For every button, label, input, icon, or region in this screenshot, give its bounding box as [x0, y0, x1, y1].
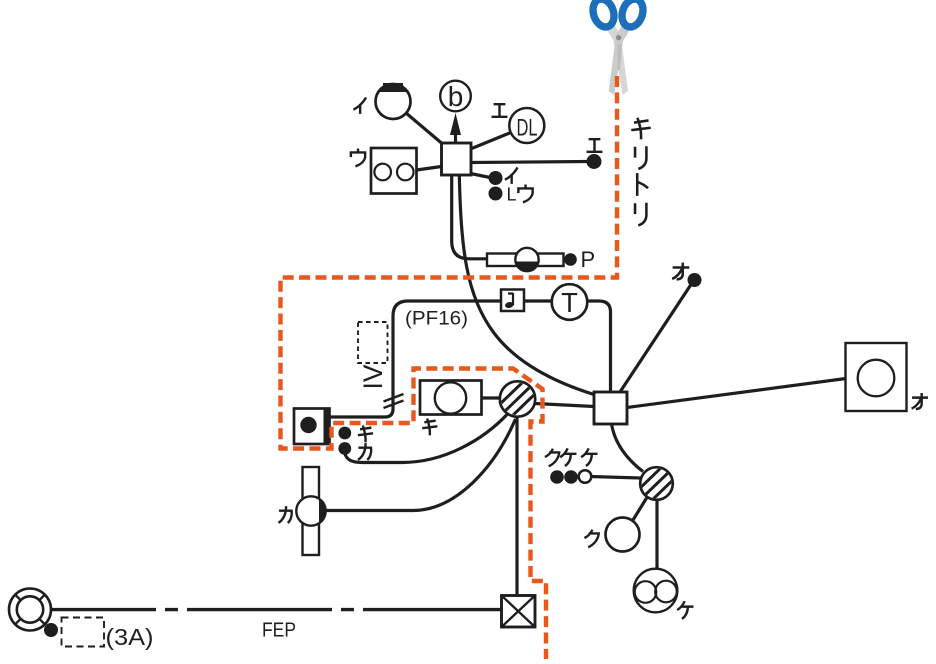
label U for outlet	[351, 148, 365, 166]
wire: long curve switchbox to junction box	[459, 175, 594, 395]
svg-text:FEP: FEP	[262, 620, 296, 642]
switch dot KA	[338, 442, 351, 455]
outlet KE (two circles in circle)	[634, 569, 678, 613]
wall light KA (bar + circle, black half)	[303, 467, 320, 555]
svg-text:DL: DL	[517, 115, 538, 142]
wire: switch dots KU/KE to joint circle 2	[591, 477, 641, 479]
wire: switchbox to switches I/L-U	[468, 173, 490, 178]
wire: switches KI/KA curve to joint circle 1	[345, 414, 508, 463]
wire: junction box to ceiling O dot	[620, 283, 692, 392]
svg-text:L: L	[507, 185, 517, 205]
label kiritori RI2	[635, 203, 646, 226]
pilot b circle	[440, 81, 471, 112]
wire: joint circle 1 down to pull box	[515, 417, 518, 596]
switch with pilot KI (circle in rect)	[420, 381, 482, 415]
dashed 3A callout box	[62, 618, 105, 647]
wire: junction box down to joint circle 2	[612, 424, 644, 472]
wire: switchbox to lamp	[406, 113, 445, 146]
svg-text:IV: IV	[358, 365, 388, 390]
wire: junction box to box light O	[627, 379, 846, 408]
label KA for switch	[358, 443, 371, 460]
label KE2	[581, 448, 597, 466]
svg-text:b: b	[448, 81, 464, 112]
label KU	[545, 449, 559, 467]
switch dot KU	[550, 470, 564, 484]
joint circle 1 (hatched)	[497, 379, 538, 419]
label I for lamp	[353, 98, 366, 114]
wire: switch rect KI to joint circle 1	[482, 396, 500, 399]
label KE1	[560, 448, 576, 466]
wire: outlet to chime via PF16 conduit	[330, 301, 501, 417]
cut line (kiritori) orange dashed path	[281, 76, 618, 659]
svg-text:P: P	[581, 247, 596, 272]
label O for dot	[672, 263, 689, 280]
IV wire-type dashed callout box	[358, 322, 388, 363]
wire: chime to transformer	[524, 299, 552, 302]
switch dot KE open	[579, 470, 592, 483]
switchbox (top square)	[442, 143, 472, 175]
wire: switchbox right to switch E	[471, 162, 589, 163]
label O for box light	[912, 393, 928, 409]
switch dot E (end of right wire)	[587, 154, 602, 169]
black dot at service entrance	[44, 623, 58, 637]
label E for downlight	[492, 104, 508, 117]
label kiritori KI	[631, 118, 650, 140]
wire: switchbox to downlight	[468, 132, 512, 150]
junction box (middle square)	[594, 392, 627, 424]
wire: switchbox down to P pull switch	[452, 175, 487, 259]
label U for switch L	[518, 184, 532, 202]
switch dot KE filled	[564, 470, 578, 484]
label KU for lamp	[584, 530, 598, 548]
wire: wall light KA curve to joint circle 1	[326, 419, 516, 511]
wire count slashes	[384, 394, 404, 408]
wire: transformer to junction box	[588, 301, 611, 392]
label kiritori RI	[635, 146, 646, 169]
label kiritori TO	[637, 173, 648, 196]
pull box (square with X)	[502, 596, 536, 628]
wire: joint circle 1 to junction box	[535, 404, 594, 407]
label KI for switch rect	[422, 419, 437, 436]
label KI for switch	[358, 426, 373, 443]
switch dot I	[489, 171, 503, 185]
wire: joint circle 2 to lamp KU	[633, 497, 648, 521]
wire: FEP underground line	[50, 608, 502, 611]
wall outlet with dot (left)	[294, 409, 330, 445]
ceiling dot O	[688, 273, 702, 287]
svg-text:(3A): (3A)	[106, 624, 154, 650]
svg-text:T: T	[561, 287, 578, 318]
scissors icon	[590, 0, 647, 95]
arrow up from switchbox to b	[454, 124, 457, 143]
label KE for outlet	[677, 601, 693, 619]
label I for switch	[505, 168, 518, 184]
lamp KU circle	[606, 518, 640, 552]
transformer T circle	[552, 284, 588, 320]
box light O (circle in square)	[846, 343, 907, 411]
lamp I (circle with black cap)	[376, 84, 411, 119]
label KA for wall light	[279, 506, 292, 523]
label E for switch	[587, 139, 603, 152]
double outlet U (two circles in box)	[371, 148, 417, 194]
joint circle 2 (hatched)	[636, 464, 677, 504]
switch dot L-U	[489, 187, 503, 201]
wire: joint circle 2 down to outlet KE	[655, 500, 658, 569]
pull switch P (bar with circle)	[487, 254, 564, 267]
downlight DL circle	[509, 108, 544, 143]
service entrance double circle	[9, 589, 51, 631]
svg-text:(PF16): (PF16)	[405, 308, 468, 330]
chime box (music note)	[501, 290, 524, 312]
wire: switchbox to outlet U	[417, 167, 442, 171]
switch dot KI	[338, 427, 351, 440]
switch dot P	[564, 253, 577, 266]
